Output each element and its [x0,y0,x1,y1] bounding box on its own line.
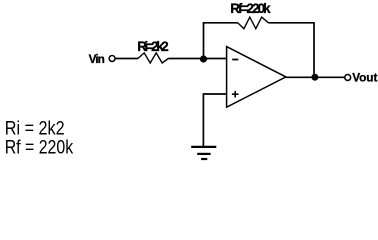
op-amp U1 triangle [227,47,286,108]
wire non-inverting input [203,93,227,95]
svg-text:Rf = 220k: Rf = 220k [5,137,74,159]
wire Vin to Ri [116,58,138,60]
ground [191,147,216,159]
wire Ri to op-amp inverting input [168,58,226,60]
node B output junction dot [311,74,318,81]
terminal Vout [345,75,351,81]
resistor Rf [238,17,269,29]
svg-text:Ri=2k2: Ri=2k2 [137,39,169,54]
wire feedback right horizontal and vertical [268,23,314,78]
pin label minus (inverting input) [232,59,238,61]
wire feedback left vertical [204,23,238,59]
wire op-amp output [286,76,345,78]
terminal Vin [109,56,115,62]
svg-text:Vin: Vin [89,52,105,66]
node A junction dot [200,55,207,62]
wire to ground [202,94,204,147]
svg-text:Rf=220k: Rf=220k [230,1,271,16]
svg-text:Vout: Vout [352,71,377,85]
pin label plus (non-inverting input) [232,91,239,98]
resistor Ri [138,53,168,63]
